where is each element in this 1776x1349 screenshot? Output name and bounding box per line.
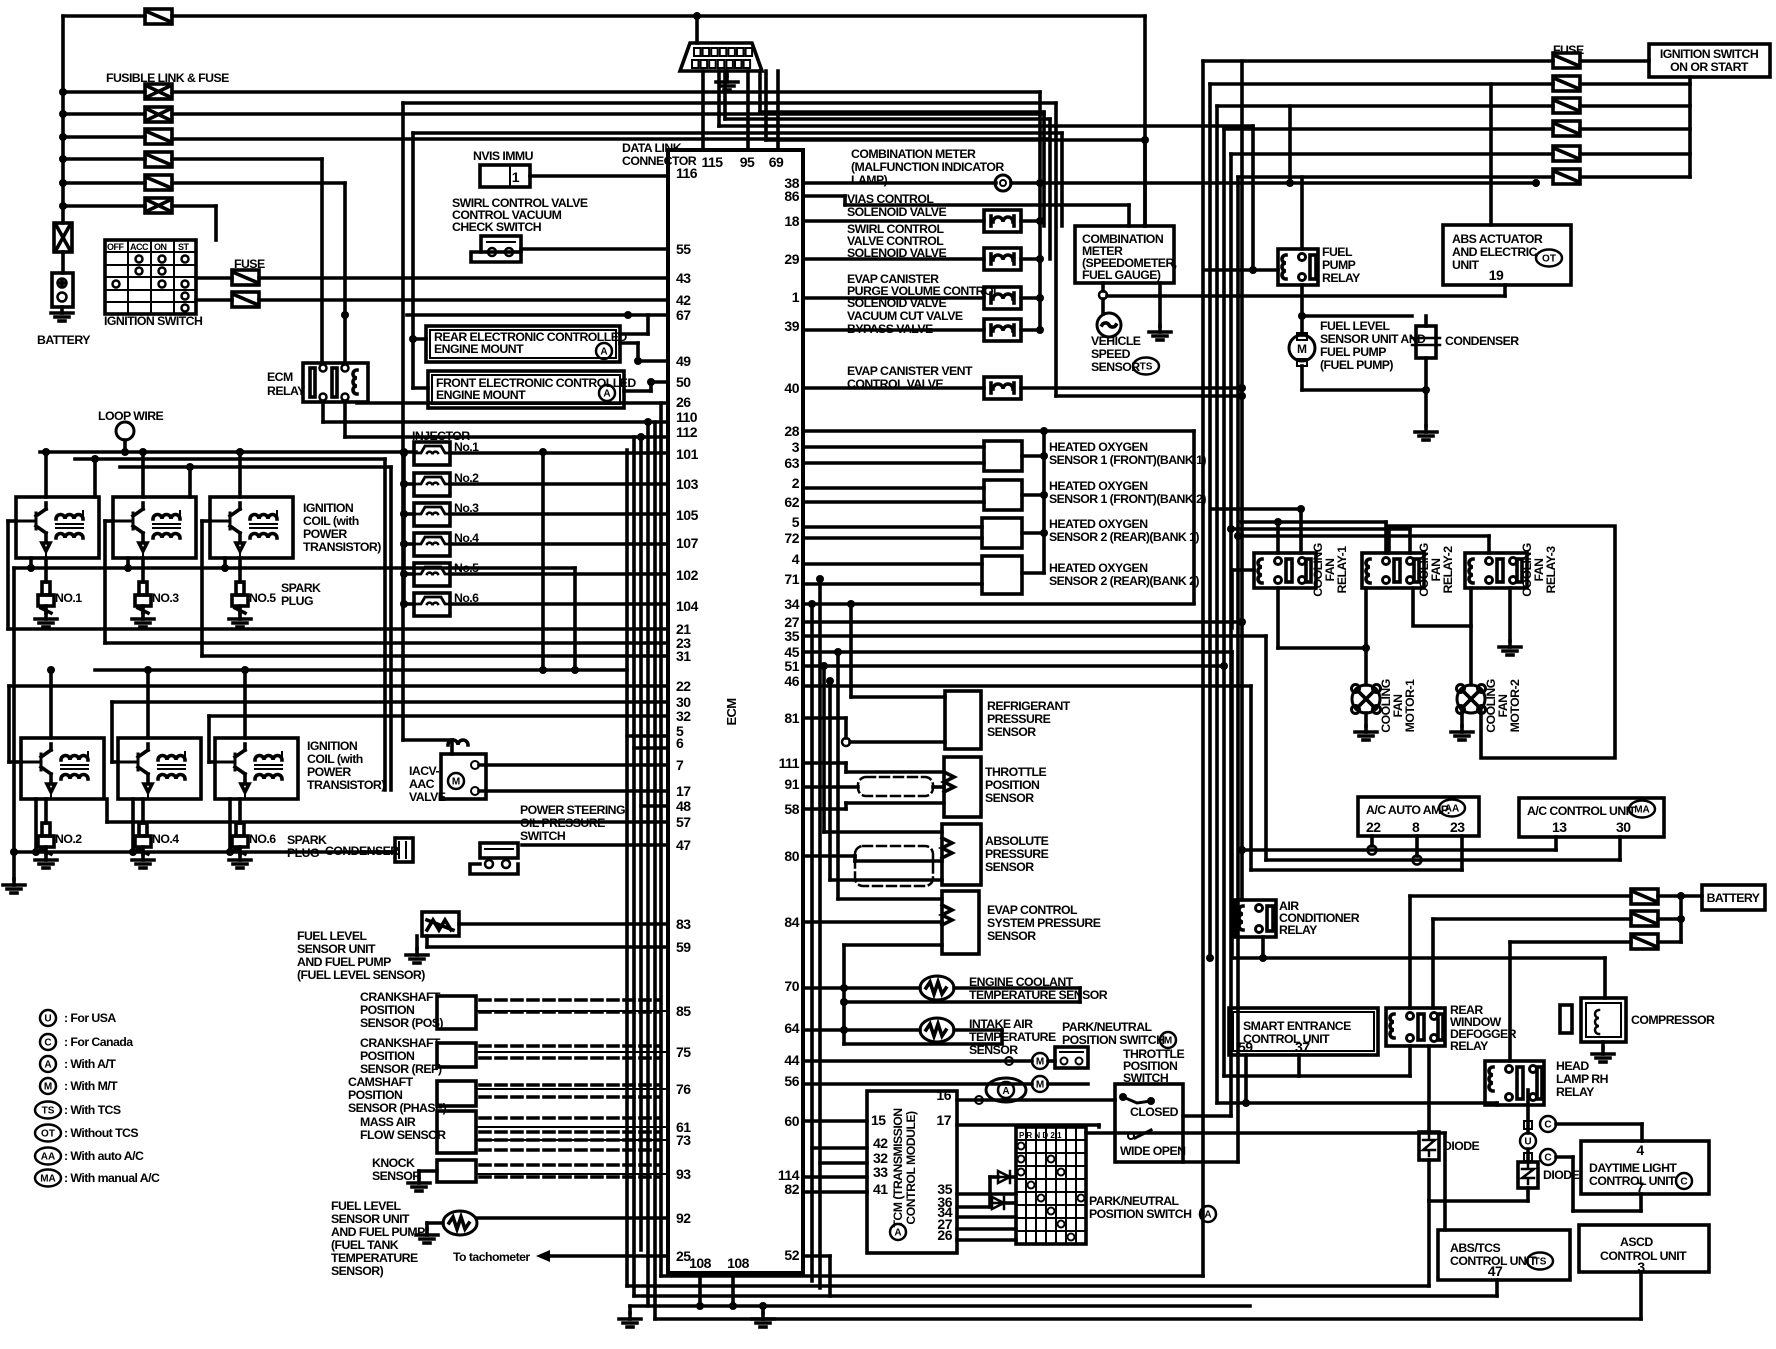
wire row5 [172, 181, 345, 185]
right bus cluster verticals [1201, 61, 1205, 1276]
svg-text:PRESSURE: PRESSURE [985, 847, 1049, 861]
svg-text:5: 5 [792, 514, 800, 530]
wire row6 [172, 204, 216, 208]
svg-text:: With A/T: : With A/T [64, 1057, 116, 1071]
svg-text:DATA LINK: DATA LINK [622, 141, 682, 155]
svg-text:A: A [600, 347, 607, 358]
wires cooling fans [1276, 522, 1280, 553]
ground motor1 [1364, 713, 1368, 726]
shielded cables left sensors [480, 1000, 660, 1177]
svg-text:RELAY: RELAY [1322, 271, 1360, 285]
svg-text:ABS ACTUATOR: ABS ACTUATOR [1452, 232, 1543, 246]
svg-text:HEAD: HEAD [1556, 1059, 1589, 1073]
wire bank1 bottom bus [14, 566, 575, 570]
svg-text:85: 85 [676, 1003, 691, 1019]
ignition coil 2 [21, 738, 104, 799]
svg-text:SENSOR UNIT: SENSOR UNIT [331, 1212, 410, 1226]
heated oxygen sensor 1 front bank2 [984, 480, 1022, 510]
wires tcm grid [957, 1192, 1016, 1196]
cooling fan motor-2 [1457, 685, 1485, 713]
svg-text:58: 58 [784, 801, 799, 817]
svg-text:72: 72 [784, 530, 799, 546]
svg-text:1: 1 [792, 289, 800, 305]
svg-text:C: C [44, 1038, 51, 1049]
wire fp relay [1300, 177, 1304, 249]
cooling fan relay-2 [1362, 553, 1424, 588]
svg-text:POWER STEERING: POWER STEERING [520, 803, 625, 817]
svg-text:AND ELECTRIC: AND ELECTRIC [1452, 245, 1538, 259]
svg-text:CRANKSHAFT: CRANKSHAFT [360, 990, 441, 1004]
svg-text:4: 4 [1636, 1142, 1644, 1158]
svg-text:71: 71 [784, 571, 799, 587]
svg-text:108: 108 [727, 1255, 750, 1271]
injector No.5 [414, 563, 450, 586]
compressor [1581, 998, 1626, 1042]
svg-text:8: 8 [1412, 819, 1420, 835]
air conditioner relay [1235, 900, 1276, 937]
svg-text:FUEL LEVEL: FUEL LEVEL [331, 1199, 401, 1213]
wire o2 bus [1042, 431, 1046, 573]
svg-text:93: 93 [676, 1166, 691, 1182]
svg-text:VEHICLE: VEHICLE [1091, 334, 1141, 348]
svg-text:CONDENSER: CONDENSER [1445, 334, 1519, 348]
svg-text:33: 33 [873, 1164, 888, 1180]
svg-text:4: 4 [792, 551, 800, 567]
legend C [40, 1034, 56, 1050]
svg-text:MA: MA [40, 1174, 56, 1185]
svg-text:NO.6: NO.6 [249, 832, 276, 846]
svg-text:MA: MA [1634, 805, 1650, 816]
wires injectors [450, 451, 668, 455]
svg-text:BATTERY: BATTERY [1707, 891, 1760, 905]
svg-text:81: 81 [784, 710, 799, 726]
svg-text:TS: TS [1534, 1257, 1547, 1268]
circled M 2 [1032, 1076, 1048, 1092]
svg-text:M: M [1036, 1080, 1044, 1091]
svg-text:AA: AA [1445, 804, 1459, 815]
wires coil bank2 [95, 668, 627, 672]
svg-text:48: 48 [676, 798, 691, 814]
svg-text:22: 22 [676, 678, 691, 694]
svg-text:A/C CONTROL UNIT: A/C CONTROL UNIT [1527, 804, 1637, 818]
svg-text:POSITION: POSITION [360, 1049, 415, 1063]
wires right fuses [1203, 59, 1553, 63]
ground compressor [1601, 1042, 1605, 1048]
svg-text:SPARK: SPARK [287, 833, 327, 847]
circled U [1520, 1133, 1536, 1149]
wire defogger feeds [1410, 894, 1631, 898]
svg-text:VACUUM CUT VALVE: VACUUM CUT VALVE [847, 309, 963, 323]
MIL lamp [803, 181, 996, 185]
svg-text:A: A [603, 389, 610, 400]
wires defogger smart entrance [1297, 1055, 1301, 1076]
svg-text:OT: OT [1542, 254, 1556, 265]
svg-text:FUEL LEVEL: FUEL LEVEL [297, 929, 367, 943]
svg-text:C: C [1544, 1120, 1551, 1131]
svg-text:SYSTEM PRESSURE: SYSTEM PRESSURE [987, 916, 1101, 930]
svg-text:91: 91 [784, 776, 799, 792]
heated oxygen sensor 2 rear bank2 [982, 556, 1022, 594]
svg-text:A: A [1002, 1086, 1009, 1097]
svg-text:7: 7 [1636, 1179, 1644, 1195]
svg-text:111: 111 [779, 755, 800, 771]
svg-text:EVAP CONTROL: EVAP CONTROL [987, 903, 1078, 917]
svg-text:64: 64 [784, 1020, 799, 1036]
fusible link FL6 [145, 198, 172, 213]
svg-text:AND FUEL PUMP: AND FUEL PUMP [331, 1225, 425, 1239]
comb meter verticals [1143, 16, 1147, 226]
ground comb meter [1158, 283, 1162, 326]
wire fan loop B [1276, 588, 1280, 648]
svg-text:POSITION SWITCH: POSITION SWITCH [1062, 1033, 1165, 1047]
wire vss [1107, 294, 1505, 298]
svg-text:EVAP CANISTER VENT: EVAP CANISTER VENT [847, 364, 973, 378]
fuse FR6 [1553, 169, 1580, 184]
fuse battery2 [1631, 911, 1658, 926]
throttle position sensor [944, 757, 981, 817]
svg-text:POSITION: POSITION [985, 778, 1040, 792]
wire pin44 [803, 1059, 1032, 1063]
svg-text:SENSOR 1 (FRONT)(BANK 2): SENSOR 1 (FRONT)(BANK 2) [1049, 492, 1206, 506]
combination meter speedo [1075, 226, 1174, 283]
svg-text:SENSOR: SENSOR [985, 860, 1034, 874]
svg-text:SENSOR (PHASE): SENSOR (PHASE) [348, 1101, 447, 1115]
svg-text:DIODE: DIODE [1443, 1139, 1480, 1153]
svg-text:FLOW SENSOR: FLOW SENSOR [360, 1128, 446, 1142]
svg-text:46: 46 [784, 673, 799, 689]
ignition switch [105, 240, 196, 314]
svg-text:AAC: AAC [409, 777, 435, 791]
svg-text:RELAY: RELAY [1279, 923, 1317, 937]
svg-text:TEMPERATURE SENSOR: TEMPERATURE SENSOR [969, 988, 1108, 1002]
svg-text:RELAY: RELAY [1450, 1039, 1488, 1053]
smart entrance control unit [1229, 1008, 1378, 1055]
svg-text:SWITCH: SWITCH [520, 829, 566, 843]
svg-text:112: 112 [676, 424, 698, 440]
svg-text:70: 70 [784, 978, 799, 994]
fusible link FL2 [145, 107, 172, 122]
svg-text:CRANKSHAFT: CRANKSHAFT [360, 1036, 441, 1050]
svg-text:RELAY-2: RELAY-2 [1441, 546, 1455, 594]
svg-text:26: 26 [937, 1227, 952, 1243]
svg-text:SOLENOID VALVE: SOLENOID VALVE [847, 205, 946, 219]
svg-text:SENSOR UNIT: SENSOR UNIT [297, 942, 376, 956]
svg-text:UNIT: UNIT [1452, 258, 1480, 272]
wires ac relay [1261, 937, 1265, 958]
cooling fan relay-1 [1254, 553, 1316, 588]
svg-text:PRESSURE: PRESSURE [987, 712, 1051, 726]
head lamp RH relay [1485, 1061, 1544, 1105]
wire fan motor1 feed [1364, 588, 1368, 685]
svg-text:40: 40 [784, 380, 799, 396]
svg-text:44: 44 [784, 1052, 799, 1068]
fusible link FL5 [145, 175, 172, 190]
svg-text:ASCD: ASCD [1620, 1235, 1653, 1249]
svg-text:: With auto A/C: : With auto A/C [64, 1149, 144, 1163]
svg-text:SMART ENTRANCE: SMART ENTRANCE [1243, 1019, 1351, 1033]
svg-text:107: 107 [676, 535, 699, 551]
diode 2 [992, 1197, 1004, 1209]
wire row4 [172, 157, 322, 161]
ignition switch on or start [1649, 44, 1770, 77]
svg-text:115: 115 [701, 154, 723, 170]
battery fuse [54, 223, 72, 252]
svg-text:TRANSISTOR): TRANSISTOR) [307, 778, 385, 792]
svg-text:SENSOR (REF): SENSOR (REF) [360, 1062, 442, 1076]
svg-text:WIDE OPEN: WIDE OPEN [1120, 1144, 1186, 1158]
svg-text:M: M [1036, 1057, 1044, 1068]
ABS TCS control unit [1438, 1230, 1570, 1280]
svg-text:63: 63 [784, 455, 799, 471]
ignition coil 1 [16, 497, 99, 558]
wire pin57 long [107, 820, 668, 824]
wire pin55 [521, 247, 668, 251]
svg-text:SENSOR 2 (REAR)(BANK 1): SENSOR 2 (REAR)(BANK 1) [1049, 530, 1199, 544]
svg-text:IGNITION: IGNITION [307, 739, 358, 753]
wire mounts [411, 339, 415, 388]
svg-text:M: M [44, 1082, 52, 1093]
ground DLC [725, 71, 729, 76]
svg-text:3: 3 [792, 439, 800, 455]
left vertical bundle [625, 450, 629, 1286]
park neutral position switch A grid [1016, 1127, 1086, 1244]
wires pins 5 6 [627, 734, 668, 738]
wire top bus [63, 14, 145, 18]
svg-text:: For Canada: : For Canada [64, 1035, 133, 1049]
wire pin86 [803, 194, 845, 198]
svg-text:39: 39 [784, 318, 799, 334]
TCM box [867, 1091, 957, 1253]
svg-text:62: 62 [784, 494, 799, 510]
svg-text:47: 47 [676, 837, 691, 853]
svg-text:TRANSISTOR): TRANSISTOR) [303, 540, 381, 554]
svg-text:TS: TS [1140, 362, 1153, 373]
svg-text:49: 49 [676, 353, 691, 369]
svg-text:CONTROL UNIT: CONTROL UNIT [1589, 1174, 1676, 1188]
spark plug NO.4 [139, 823, 147, 836]
legend M [40, 1078, 56, 1094]
svg-text:COIL (with: COIL (with [307, 752, 363, 766]
svg-text:LAMP): LAMP) [851, 173, 888, 187]
bottom long wires [661, 1274, 1203, 1278]
svg-text:CAMSHAFT: CAMSHAFT [348, 1075, 414, 1089]
svg-text:C: C [1680, 1177, 1687, 1188]
wires coil bank1 [40, 450, 416, 454]
front engine mount [428, 371, 624, 408]
svg-text:POSITION SWITCH: POSITION SWITCH [1089, 1207, 1192, 1221]
fuse FB [232, 292, 259, 307]
svg-text:FUEL: FUEL [1322, 245, 1353, 259]
svg-text:17: 17 [676, 783, 691, 799]
svg-text:M: M [1297, 342, 1307, 356]
wire abs [1503, 285, 1507, 296]
daytime light control unit [1581, 1141, 1709, 1194]
svg-text:SENSOR: SENSOR [987, 725, 1036, 739]
wire relay fan bottom loop [1232, 568, 1254, 572]
svg-text:16: 16 [936, 1087, 951, 1103]
wire fan motor2 feed [1469, 588, 1473, 685]
wire fls [459, 922, 668, 926]
svg-text:: Without TCS: : Without TCS [64, 1126, 138, 1140]
fuse FR4 [1553, 121, 1580, 136]
svg-text:32: 32 [676, 708, 691, 724]
ECM U1 [668, 150, 803, 1273]
wires DLC [695, 16, 699, 43]
wires diode daytime [1427, 1046, 1431, 1132]
wire AC relay vertical [1240, 61, 1244, 900]
svg-text:CONTROL MODULE): CONTROL MODULE) [904, 1111, 918, 1225]
svg-text:41: 41 [873, 1181, 888, 1197]
wire bank2 base feeds [9, 684, 668, 688]
svg-text:A: A [894, 1228, 901, 1239]
svg-text:ECM: ECM [724, 698, 739, 725]
svg-text:37: 37 [1295, 1039, 1310, 1055]
svg-text:SENSOR: SENSOR [372, 1169, 421, 1183]
svg-text:CONTROL UNIT: CONTROL UNIT [1243, 1032, 1330, 1046]
ASCD control unit [1579, 1225, 1709, 1272]
fuse F-top [145, 9, 172, 24]
svg-text:52: 52 [784, 1247, 799, 1263]
svg-text:42: 42 [873, 1135, 888, 1151]
svg-text:OT: OT [41, 1129, 55, 1140]
wire fan loop A [1389, 526, 1615, 758]
svg-text:NO.1: NO.1 [55, 591, 82, 605]
ignition coil 4 [118, 738, 201, 799]
svg-text:COMPRESSOR: COMPRESSOR [1631, 1013, 1715, 1027]
svg-text:: With manual A/C: : With manual A/C [64, 1171, 160, 1185]
wire pin81 [803, 716, 846, 720]
wires TPS out [1183, 1114, 1231, 1118]
battery right [1702, 885, 1765, 910]
svg-text:104: 104 [676, 598, 699, 614]
A/C control unit [1519, 798, 1664, 837]
absolute pressure sensor [942, 824, 981, 885]
svg-text:FUEL LEVEL: FUEL LEVEL [1320, 319, 1390, 333]
svg-text:108: 108 [689, 1255, 712, 1271]
top bundle wires [403, 101, 1056, 105]
svg-text:43: 43 [676, 270, 691, 286]
svg-text:18: 18 [784, 213, 799, 229]
evap control system pressure sensor [942, 891, 979, 954]
svg-text:MASS AIR: MASS AIR [360, 1115, 416, 1129]
svg-text:67: 67 [676, 307, 691, 323]
svg-text:TCM (TRANSMISSION: TCM (TRANSMISSION [891, 1108, 905, 1228]
fuse battery1 [1631, 889, 1658, 904]
svg-text:PARK/NEUTRAL: PARK/NEUTRAL [1089, 1194, 1180, 1208]
ground knock [419, 1169, 437, 1173]
throttle dashed connector [858, 777, 933, 796]
svg-text:M: M [1164, 1036, 1172, 1047]
svg-text:C: C [1544, 1153, 1551, 1164]
injector No.6 [414, 593, 450, 616]
spark plug NO.5 [236, 582, 244, 595]
svg-text:51: 51 [784, 658, 799, 674]
svg-text:VIAS CONTROL: VIAS CONTROL [847, 192, 934, 206]
svg-text:RELAY-3: RELAY-3 [1544, 546, 1558, 594]
absolute dashed connector [855, 846, 933, 886]
svg-text:92: 92 [676, 1210, 691, 1226]
fuse FR3 [1553, 98, 1580, 113]
svg-text:U: U [1524, 1137, 1531, 1148]
svg-text:A: A [44, 1060, 51, 1071]
park neutral switch M [1055, 1047, 1088, 1068]
svg-text:(FUEL PUMP): (FUEL PUMP) [1320, 358, 1393, 372]
heated oxygen sensor 1 front bank1 [984, 441, 1022, 471]
svg-text:CLOSED: CLOSED [1130, 1105, 1179, 1119]
svg-text:86: 86 [784, 188, 799, 204]
svg-text:RELAY: RELAY [267, 384, 305, 398]
svg-text:ENGINE MOUNT: ENGINE MOUNT [434, 342, 524, 356]
fuse FR1 [1553, 53, 1580, 68]
wire headlamp feed [1510, 940, 1631, 944]
svg-text:: With M/T: : With M/T [64, 1079, 118, 1093]
legend AA [35, 1148, 61, 1165]
svg-text:ON OR START: ON OR START [1670, 60, 1749, 74]
wire pin28 loop [803, 429, 1194, 433]
cooling fan motor-1 [1352, 685, 1380, 713]
svg-text:U: U [44, 1014, 51, 1025]
svg-text:73: 73 [676, 1132, 691, 1148]
battery [61, 252, 65, 273]
wire relay out [321, 402, 325, 422]
svg-text:(FUEL TANK: (FUEL TANK [331, 1238, 399, 1252]
bottom wires right [655, 1317, 1641, 1321]
cooling fan relay-3 [1465, 553, 1527, 588]
svg-text:SENSOR): SENSOR) [331, 1264, 384, 1278]
svg-text:110: 110 [676, 409, 698, 425]
svg-text:SENSOR: SENSOR [987, 929, 1036, 943]
svg-text:POSITION: POSITION [348, 1088, 403, 1102]
wires battery right [1658, 894, 1702, 898]
svg-text:83: 83 [676, 916, 691, 932]
injector No.1 [414, 442, 450, 465]
svg-text:13: 13 [1552, 819, 1567, 835]
wire solenoid bus [1038, 92, 1042, 330]
svg-text:NO.3: NO.3 [152, 591, 179, 605]
ground ftts [427, 1221, 443, 1225]
svg-text:POWER: POWER [303, 527, 347, 541]
svg-text:P R N D 2 1: P R N D 2 1 [1019, 1131, 1062, 1140]
svg-text:ECM: ECM [267, 370, 293, 384]
svg-text:POWER: POWER [307, 765, 351, 779]
diode D2 [1518, 1162, 1538, 1188]
wire pin60 to TCM15 [803, 1119, 867, 1123]
svg-text:IGNITION SWITCH: IGNITION SWITCH [104, 314, 203, 328]
svg-text:OFF: OFF [107, 242, 124, 252]
svg-text:SENSOR 1 (FRONT)(BANK 1): SENSOR 1 (FRONT)(BANK 1) [1049, 453, 1206, 467]
svg-text:29: 29 [784, 251, 799, 267]
svg-text:LOOP WIRE: LOOP WIRE [98, 409, 164, 423]
svg-text:102: 102 [676, 567, 699, 583]
svg-text:: With TCS: : With TCS [64, 1103, 121, 1117]
svg-text:ABS/TCS: ABS/TCS [1450, 1241, 1500, 1255]
svg-text:A/C AUTO AMP.: A/C AUTO AMP. [1366, 803, 1450, 817]
svg-text:HEATED OXYGEN: HEATED OXYGEN [1049, 479, 1148, 493]
wire pin67 [407, 313, 668, 317]
svg-text:(MALFUNCTION INDICATOR: (MALFUNCTION INDICATOR [851, 160, 1004, 174]
wire pin52 [803, 1254, 830, 1258]
wire bank2 bottom bus [14, 850, 395, 854]
svg-text:RELAY: RELAY [1556, 1085, 1594, 1099]
svg-text:47: 47 [1488, 1263, 1503, 1279]
svg-text:84: 84 [784, 914, 799, 930]
svg-text:75: 75 [676, 1044, 691, 1060]
svg-text:23: 23 [1450, 819, 1465, 835]
svg-text:22: 22 [1366, 819, 1381, 835]
svg-text:(FUEL LEVEL SENSOR): (FUEL LEVEL SENSOR) [297, 968, 425, 982]
rear window defogger relay [1386, 1008, 1445, 1046]
svg-text:IGNITION: IGNITION [303, 501, 354, 515]
